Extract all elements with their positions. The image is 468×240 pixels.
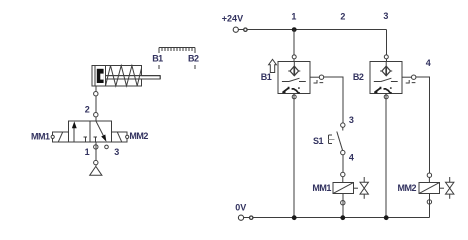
svg-text:S1: S1 (313, 136, 324, 146)
svg-text:+24V: +24V (222, 14, 243, 24)
svg-text:3: 3 (114, 147, 119, 157)
svg-text:MM1: MM1 (31, 132, 50, 142)
svg-text:1: 1 (85, 147, 90, 157)
svg-text:MM2: MM2 (129, 131, 148, 141)
svg-text:1: 1 (291, 12, 296, 22)
svg-text:MM1: MM1 (312, 183, 331, 193)
svg-text:B2: B2 (353, 72, 364, 82)
svg-text:2: 2 (85, 105, 90, 115)
svg-text:B1: B1 (261, 72, 272, 82)
svg-text:B2: B2 (188, 54, 199, 64)
svg-text:4: 4 (426, 58, 431, 68)
svg-text:MM2: MM2 (398, 183, 417, 193)
svg-text:4: 4 (349, 153, 354, 163)
svg-text:0V: 0V (235, 202, 246, 212)
svg-text:B1: B1 (152, 54, 163, 64)
svg-text:3: 3 (349, 115, 354, 125)
svg-text:2: 2 (340, 12, 345, 22)
svg-text:3: 3 (383, 11, 388, 21)
